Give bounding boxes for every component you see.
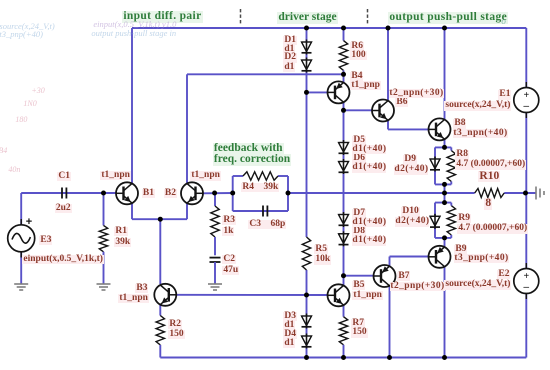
svg-text:–: – [523, 281, 530, 293]
svg-text:–: – [523, 100, 530, 112]
svg-text:+: + [26, 216, 32, 228]
